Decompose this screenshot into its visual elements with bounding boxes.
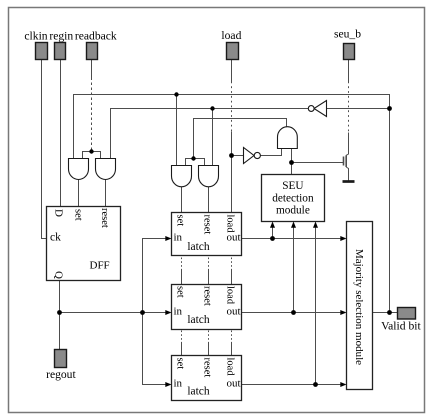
svg-text:reset: reset <box>99 208 110 228</box>
svg-text:load: load <box>225 286 236 305</box>
svg-text:regin: regin <box>49 30 73 43</box>
svg-text:reset: reset <box>202 358 213 378</box>
svg-text:reset: reset <box>202 286 213 306</box>
svg-text:in: in <box>174 378 183 390</box>
svg-text:readback: readback <box>75 30 117 43</box>
svg-text:reset: reset <box>202 215 213 235</box>
svg-text:SEU: SEU <box>282 180 303 192</box>
svg-text:regout: regout <box>46 368 76 381</box>
svg-text:set: set <box>73 209 84 221</box>
svg-text:in: in <box>174 231 183 243</box>
svg-text:detection: detection <box>272 193 314 205</box>
svg-text:DFF: DFF <box>90 259 110 271</box>
svg-text:D: D <box>53 209 65 217</box>
svg-text:out: out <box>226 378 240 390</box>
svg-text:latch: latch <box>187 241 210 253</box>
svg-text:latch: latch <box>187 385 210 397</box>
svg-text:Q: Q <box>52 271 64 279</box>
svg-text:set: set <box>175 286 186 298</box>
svg-text:load: load <box>225 358 236 377</box>
svg-text:load: load <box>221 29 241 42</box>
svg-text:in: in <box>174 306 183 318</box>
svg-text:clkin: clkin <box>24 30 47 43</box>
svg-text:out: out <box>226 306 240 318</box>
svg-text:ck: ck <box>50 232 61 244</box>
svg-text:latch: latch <box>187 314 210 326</box>
svg-text:set: set <box>175 215 186 227</box>
svg-text:out: out <box>226 231 240 243</box>
svg-text:seu_b: seu_b <box>334 28 361 41</box>
svg-text:set: set <box>175 358 186 370</box>
svg-text:module: module <box>276 205 310 217</box>
svg-text:load: load <box>225 215 236 234</box>
svg-text:Majority selection module: Majority selection module <box>353 249 365 365</box>
svg-text:Valid bit: Valid bit <box>381 320 421 333</box>
